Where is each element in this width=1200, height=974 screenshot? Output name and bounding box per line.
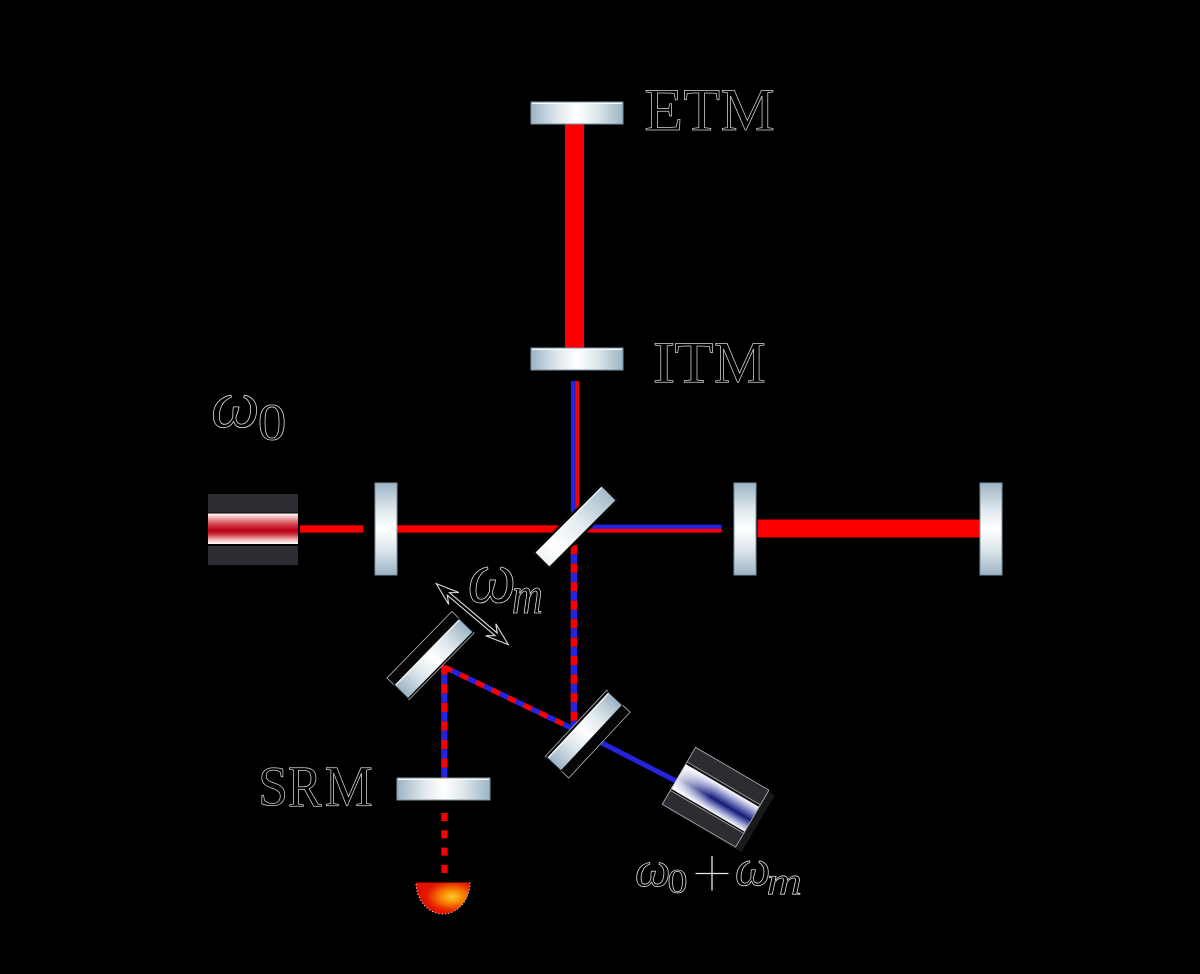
wire: dashed red/blue vertical beam BS to combiner	[571, 545, 577, 728]
wire: dashed red beam SRM to photodiode	[441, 813, 447, 873]
arrow: modulation double arrow	[436, 584, 508, 645]
wire: diagonal dashed beam modulator to combiner	[444, 667, 571, 728]
mirror: output combiner fold mirror	[545, 690, 630, 778]
local oscillator box	[668, 752, 775, 852]
wire: red line laser to input mirror	[300, 525, 363, 532]
mirror: east arm ETM (vertical)	[980, 483, 1002, 575]
photodiode	[416, 883, 470, 915]
label SRM	[262, 768, 285, 806]
wire: north arm thick red beam	[565, 123, 584, 349]
mirror: modulated fold mirror	[387, 611, 474, 699]
wire: dashed red/blue vertical beam modulator to SRM	[441, 666, 447, 778]
wire: blue line combiner to photodiode box	[599, 742, 678, 783]
wire: east arm thick red beam	[758, 520, 981, 538]
wire: vertical red line ITM to BS	[575, 381, 579, 527]
label omega_m sideband term	[737, 861, 800, 894]
laser source box	[208, 494, 298, 565]
beamsplitter BS	[534, 485, 617, 568]
label plus sign	[696, 856, 729, 891]
label omega_m (modulation frequency)	[470, 567, 513, 603]
mirror SRM	[397, 778, 490, 800]
label omega_0 + omega_m	[637, 863, 686, 893]
mirror: east arm ITM (vertical)	[734, 483, 756, 575]
wire: blue line BS to right cavity mirror	[576, 525, 722, 529]
label ETM	[646, 90, 680, 130]
wire: vertical blue line ITM to BS	[571, 381, 575, 527]
mirror ITM	[531, 348, 623, 370]
label ITM	[655, 344, 673, 383]
label omega_0 (laser frequency)	[213, 395, 256, 427]
wire: red line input mirror to right cavity mirror	[397, 525, 722, 532]
mirror ETM	[531, 102, 623, 124]
mirror: input mode cleaner (vertical)	[375, 483, 397, 575]
